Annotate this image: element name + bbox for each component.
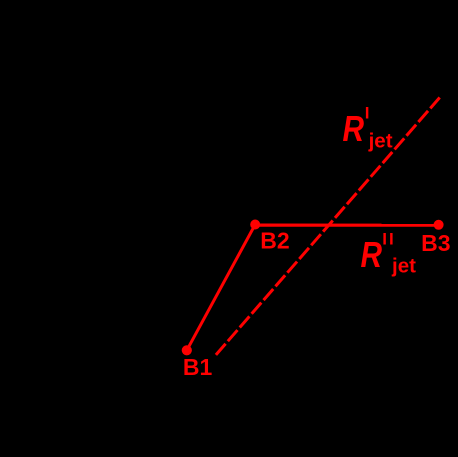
wire: dashed jet direction line R_jet_I <box>215 98 440 357</box>
svg-text:I: I <box>365 103 370 122</box>
wire: solid jet ridge line segment B1-B2 <box>187 225 255 351</box>
node B3: jet component dot <box>434 220 444 230</box>
svg-text:B2: B2 <box>260 228 289 254</box>
svg-text:jet: jet <box>391 255 416 278</box>
svg-text:B3: B3 <box>421 230 450 256</box>
node B2: jet component dot <box>250 220 260 230</box>
svg-text:R: R <box>361 234 383 275</box>
svg-text:B1: B1 <box>183 354 213 380</box>
node B1: jet component dot <box>182 345 192 355</box>
svg-text:R: R <box>343 108 365 149</box>
wire: solid jet ridge line segment B2-B3 <box>255 224 438 227</box>
svg-text:jet: jet <box>368 129 393 152</box>
svg-text:II: II <box>382 230 395 249</box>
